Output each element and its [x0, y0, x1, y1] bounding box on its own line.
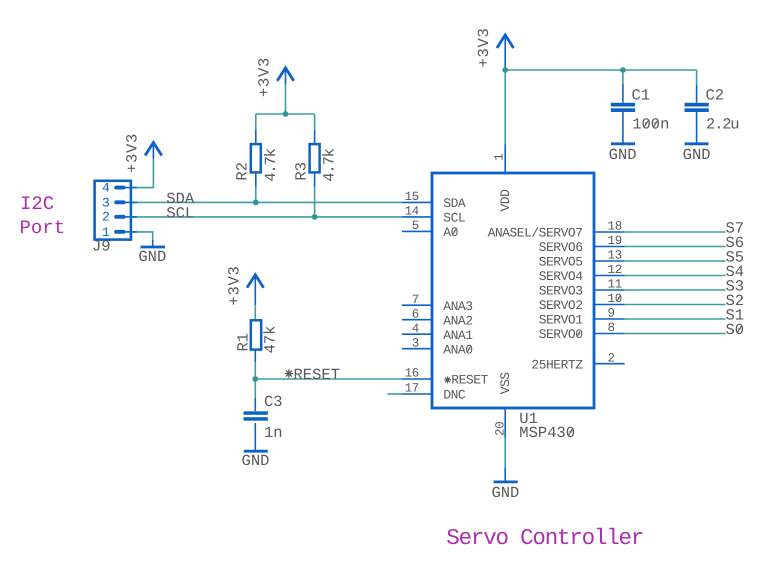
- svg-text:10: 10: [608, 292, 622, 306]
- pin 15 stub: [402, 201, 432, 203]
- asterisk of *RESET pin name: [444, 376, 451, 383]
- svg-text:2: 2: [608, 351, 615, 365]
- svg-text:18: 18: [608, 220, 622, 234]
- junction node rail +3V3: [283, 111, 289, 117]
- wire R2 bottom to SDA: [255, 187, 257, 203]
- pin 3 stub: [402, 348, 432, 350]
- wire S6: [625, 246, 726, 248]
- svg-text:5: 5: [412, 219, 419, 233]
- pin 5 stub: [402, 230, 432, 232]
- op-amp U1 body: [432, 173, 594, 408]
- pin 12 stub: [594, 275, 625, 277]
- pin 19 stub: [594, 246, 625, 248]
- pin 18 stub: [594, 231, 625, 233]
- wire R2 top to rail: [255, 114, 257, 130]
- svg-text:RESET: RESET: [294, 366, 341, 384]
- svg-text:1n: 1n: [264, 424, 283, 442]
- wire S1: [625, 318, 726, 320]
- ground below J9: [152, 240, 154, 247]
- slashed zeros of 100n: [644, 121, 658, 128]
- svg-text:2.2u: 2.2u: [706, 116, 738, 134]
- svg-text:S0: S0: [726, 321, 745, 339]
- J9 pin1 bar: [114, 230, 125, 234]
- svg-text:GND: GND: [242, 452, 270, 470]
- svg-text:GND: GND: [491, 484, 519, 502]
- svg-text:9: 9: [608, 307, 615, 321]
- asterisk of *RESET net: [285, 369, 293, 377]
- J9 pin4 lead: [125, 187, 137, 189]
- svg-text:14: 14: [405, 205, 419, 219]
- wire +3V3 top rail: [505, 69, 696, 71]
- svg-text:VSS: VSS: [498, 372, 513, 395]
- svg-text:J9: J9: [92, 238, 111, 256]
- pin 6 stub: [402, 319, 432, 321]
- junction node C1 rail: [620, 67, 626, 73]
- J9 pin2 lead: [125, 216, 137, 218]
- junction node VDD rail: [502, 67, 508, 73]
- wire *RESET net: [255, 378, 402, 380]
- wire S2: [625, 304, 726, 306]
- J9 pin3 bar: [114, 200, 125, 204]
- svg-text:4.7k: 4.7k: [262, 148, 280, 181]
- svg-text:ANASEL/SERVO7: ANASEL/SERVO7: [488, 226, 583, 241]
- ground below C3: [244, 450, 268, 453]
- svg-text:16: 16: [405, 367, 419, 381]
- pin 9 stub: [594, 318, 625, 320]
- resistor R1 body: [254, 350, 256, 362]
- svg-text:Port: Port: [20, 217, 66, 239]
- wire J9 pin4 to +3V3: [130, 159, 153, 188]
- svg-text:+3V3: +3V3: [123, 133, 141, 173]
- J9 pin1 lead: [125, 231, 137, 233]
- wire rail to VDD: [504, 70, 506, 144]
- wire rail to C1: [622, 70, 624, 84]
- svg-text:SERVO6: SERVO6: [539, 240, 583, 255]
- svg-text:SERVO4: SERVO4: [539, 269, 584, 284]
- pin 1 stub: [504, 144, 506, 173]
- svg-text:17: 17: [405, 382, 419, 396]
- ground below VSS: [504, 467, 506, 480]
- svg-text:DNC: DNC: [443, 388, 466, 403]
- J9 pin2 bar: [114, 215, 125, 219]
- slashed zero of SERVO0: [577, 331, 580, 337]
- wire R3 bottom to SCL: [314, 187, 316, 217]
- wire VSS to GND: [504, 438, 506, 467]
- svg-text:+3V3: +3V3: [475, 27, 493, 67]
- slashed zero of pin number 10: [617, 295, 620, 301]
- svg-text:A0: A0: [443, 225, 458, 240]
- svg-text:1: 1: [492, 154, 506, 161]
- svg-text:C2: C2: [706, 86, 725, 104]
- wire S0: [625, 333, 726, 335]
- svg-text:19: 19: [608, 234, 622, 248]
- resistor R2 body: [255, 130, 257, 187]
- junction node SDA/R2: [253, 200, 259, 206]
- svg-text:100n: 100n: [632, 116, 669, 134]
- svg-text:VDD: VDD: [498, 189, 513, 212]
- svg-text:GND: GND: [609, 146, 637, 164]
- svg-text:I2C: I2C: [20, 193, 54, 215]
- svg-text:+3V3: +3V3: [225, 265, 243, 305]
- svg-text:47k: 47k: [262, 326, 280, 354]
- capacitor C1: [622, 84, 624, 143]
- svg-text:MSP430: MSP430: [519, 424, 575, 442]
- svg-text:11: 11: [608, 278, 622, 292]
- wire SCL net: [130, 216, 402, 218]
- wire S4: [625, 275, 726, 277]
- svg-text:SCL: SCL: [443, 211, 465, 226]
- junction node RESET: [252, 376, 258, 382]
- svg-text:SERVO1: SERVO1: [539, 313, 584, 328]
- svg-text:4.7k: 4.7k: [321, 148, 339, 181]
- wire R2R3 rail: [256, 113, 315, 115]
- wire +3V3 to rail: [285, 85, 287, 115]
- ground below C2: [685, 142, 709, 145]
- pin 8 stub: [594, 333, 625, 335]
- svg-text:25HERTZ: 25HERTZ: [531, 357, 583, 372]
- svg-text:2: 2: [102, 210, 110, 225]
- svg-text:20: 20: [494, 422, 508, 436]
- +3V3 symbol near J9: [152, 144, 154, 159]
- slashed zero of ANA0: [467, 347, 470, 353]
- +3V3 symbol above R2R3: [285, 70, 287, 85]
- wire S3: [625, 289, 726, 291]
- svg-text:4: 4: [102, 181, 110, 196]
- svg-text:4: 4: [412, 322, 419, 336]
- wire J9 pin1 to GND: [130, 232, 153, 240]
- ground below C1: [611, 142, 635, 145]
- svg-text:8: 8: [608, 321, 615, 335]
- +3V3 symbol above VDD: [504, 37, 506, 71]
- svg-text:SERVO2: SERVO2: [539, 298, 583, 313]
- slashed zero of S0: [737, 326, 741, 333]
- pin 14 stub: [402, 216, 432, 218]
- resistor R3 body: [314, 130, 316, 187]
- pin 20 stub: [504, 408, 506, 438]
- svg-text:C1: C1: [632, 86, 651, 104]
- wire DNC stub: [387, 393, 402, 395]
- J9 pin4 bar: [114, 186, 125, 190]
- svg-text:RESET: RESET: [451, 373, 488, 388]
- svg-text:GND: GND: [683, 146, 711, 164]
- svg-text:+3V3: +3V3: [255, 57, 273, 97]
- svg-text:3: 3: [412, 336, 419, 350]
- svg-text:6: 6: [412, 307, 419, 321]
- svg-text:SERVO3: SERVO3: [539, 284, 583, 299]
- svg-text:SERVO5: SERVO5: [539, 255, 583, 270]
- slashed zero of A0: [453, 229, 456, 235]
- svg-text:R3: R3: [292, 162, 310, 181]
- wire S5: [625, 260, 726, 262]
- wire rail to C2: [696, 70, 698, 85]
- wire RESET node to C3: [254, 379, 256, 398]
- pin 7 stub: [402, 304, 432, 306]
- svg-text:15: 15: [405, 190, 419, 204]
- svg-text:Servo Controller: Servo Controller: [446, 525, 643, 551]
- pin 11 stub: [594, 289, 625, 291]
- wire +3V3 to R1: [254, 305, 256, 320]
- svg-text:GND: GND: [138, 248, 166, 266]
- svg-text:3: 3: [102, 195, 110, 210]
- svg-text:13: 13: [608, 249, 622, 263]
- svg-text:SCL: SCL: [166, 204, 194, 222]
- svg-text:7: 7: [412, 293, 419, 307]
- svg-text:ANA3: ANA3: [443, 299, 472, 314]
- pin 10 stub: [594, 304, 625, 306]
- svg-text:ANA2: ANA2: [443, 313, 472, 328]
- capacitor C2: [696, 85, 698, 143]
- connector J9 body: [95, 181, 131, 240]
- svg-text:R2: R2: [234, 162, 252, 181]
- pin 16 stub: [402, 378, 432, 380]
- svg-text:R1: R1: [234, 333, 252, 352]
- svg-text:SERVO0: SERVO0: [539, 327, 583, 342]
- svg-text:12: 12: [608, 263, 622, 277]
- wire SDA net: [130, 201, 402, 203]
- slashed zero of MSP430: [568, 429, 572, 436]
- wire S7: [625, 231, 726, 233]
- svg-text:ANA1: ANA1: [443, 328, 473, 343]
- svg-text:C3: C3: [264, 393, 283, 411]
- pin 17 stub: [402, 393, 432, 395]
- pin 4 stub: [402, 333, 432, 335]
- wire R1 bottom to RESET node: [254, 362, 256, 379]
- junction node SCL/R3: [312, 214, 318, 220]
- pin 2 stub: [594, 363, 625, 365]
- pin 13 stub: [594, 260, 625, 262]
- J9 pin3 lead: [125, 201, 137, 203]
- wire R3 top to rail: [314, 114, 316, 130]
- capacitor C3: [254, 398, 256, 451]
- svg-text:SDA: SDA: [443, 196, 466, 211]
- +3V3 symbol above R1: [254, 276, 256, 305]
